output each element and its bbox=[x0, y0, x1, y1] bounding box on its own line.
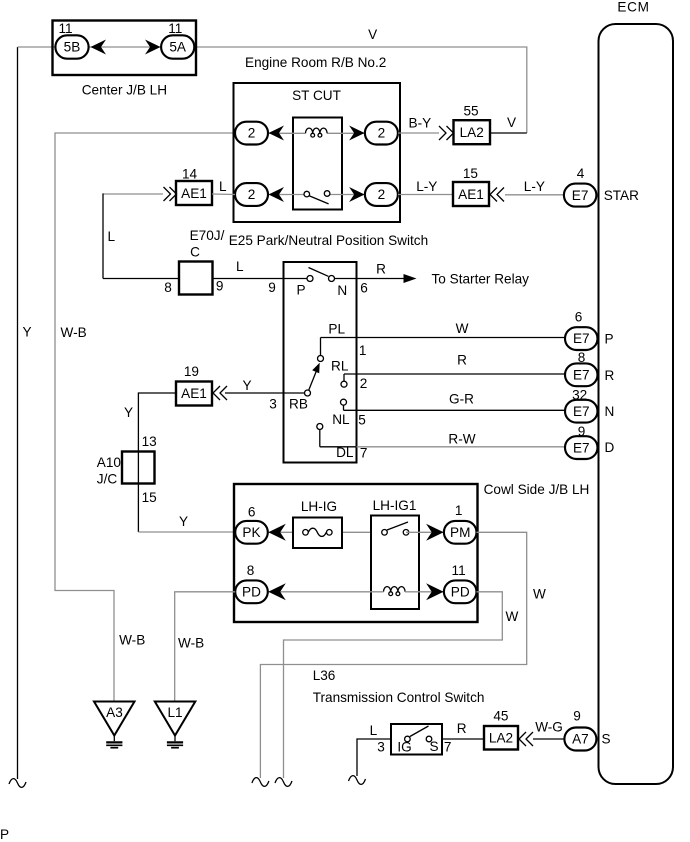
svg-text:5B: 5B bbox=[64, 40, 81, 55]
svg-text:N: N bbox=[337, 283, 347, 298]
wire B-Y from ST CUT to LA2 bbox=[398, 132, 439, 134]
svg-text:9: 9 bbox=[573, 709, 581, 724]
svg-text:R: R bbox=[605, 368, 615, 383]
svg-text:W-B: W-B bbox=[178, 635, 204, 650]
svg-text:RL: RL bbox=[331, 358, 349, 373]
mate arrow into 5B bbox=[91, 40, 107, 55]
ground symbol A3 bbox=[113, 736, 115, 742]
svg-text:LH-IG1: LH-IG1 bbox=[373, 498, 417, 513]
svg-text:A10: A10 bbox=[97, 455, 122, 470]
contact N-row with stem bbox=[341, 399, 347, 405]
svg-text:2: 2 bbox=[248, 126, 256, 141]
svg-text:W-G: W-G bbox=[535, 720, 563, 735]
svg-text:Y: Y bbox=[179, 514, 188, 529]
svg-text:7: 7 bbox=[444, 739, 452, 754]
svg-text:W-B: W-B bbox=[119, 632, 145, 647]
connector LA2 (55) bbox=[454, 120, 491, 144]
wire PD 11 W down and around bbox=[284, 592, 503, 778]
svg-text:NL: NL bbox=[332, 412, 350, 427]
svg-text:Engine Room R/B No.2: Engine Room R/B No.2 bbox=[245, 55, 386, 70]
svg-text:8: 8 bbox=[164, 280, 172, 295]
wire through Center J/B bbox=[88, 46, 161, 48]
wire Y to PK bbox=[138, 531, 235, 533]
contact RL with stem bbox=[343, 374, 345, 381]
svg-text:AE1: AE1 bbox=[181, 186, 207, 201]
svg-text:V: V bbox=[368, 27, 377, 42]
connector 2 top-right bbox=[365, 122, 398, 145]
connector E7 pin D bbox=[565, 436, 598, 459]
connector 5A bbox=[161, 35, 194, 58]
break squiggle trans L wire bbox=[349, 776, 366, 785]
wire PD row inside bbox=[268, 591, 384, 593]
svg-text:6: 6 bbox=[360, 281, 368, 296]
connector E7 pin P bbox=[565, 327, 598, 350]
svg-text:55: 55 bbox=[463, 104, 478, 119]
svg-text:N: N bbox=[605, 404, 615, 419]
svg-text:V: V bbox=[507, 115, 516, 130]
svg-text:L36: L36 bbox=[313, 668, 336, 683]
connector PD (11) bbox=[444, 580, 477, 603]
svg-text:STAR: STAR bbox=[604, 188, 639, 203]
wire PD8 to L1 ground bbox=[175, 592, 236, 701]
svg-text:6: 6 bbox=[575, 310, 583, 325]
junction block Center J/B LH bbox=[53, 21, 197, 76]
connector 2 top-left bbox=[235, 122, 268, 145]
wire L row to E70J/C bbox=[103, 278, 179, 280]
fuse LH-IG box bbox=[293, 518, 342, 549]
svg-text:9: 9 bbox=[216, 279, 224, 294]
connector PK bbox=[235, 521, 268, 544]
svg-text:C: C bbox=[190, 245, 200, 260]
svg-text:P: P bbox=[605, 332, 614, 347]
svg-text:A3: A3 bbox=[106, 705, 123, 720]
svg-text:L: L bbox=[370, 723, 378, 738]
svg-text:2: 2 bbox=[248, 187, 256, 202]
svg-text:P: P bbox=[296, 283, 305, 298]
wire L from E70J/C to switch bbox=[213, 278, 284, 280]
wire W-B vertical from ST CUT to A3 bbox=[55, 133, 235, 701]
svg-text:8: 8 bbox=[578, 350, 586, 365]
contact NL with stem bbox=[317, 424, 323, 430]
junction connector A10 J/C box bbox=[122, 452, 155, 484]
svg-text:L: L bbox=[236, 259, 244, 274]
svg-text:15: 15 bbox=[142, 490, 157, 505]
svg-text:D: D bbox=[605, 440, 615, 455]
svg-text:AE1: AE1 bbox=[458, 187, 484, 202]
svg-text:E7: E7 bbox=[572, 188, 589, 203]
connector A7 bbox=[564, 728, 596, 751]
svg-text:R: R bbox=[457, 721, 467, 736]
mate arrow into PM bbox=[426, 524, 444, 541]
chevrons into AE1 15 bbox=[490, 188, 504, 202]
svg-text:PD: PD bbox=[451, 585, 470, 600]
wire black into LA2 right bbox=[491, 132, 527, 134]
connector 5B bbox=[55, 35, 88, 58]
contact IG bbox=[405, 736, 411, 742]
svg-text:W: W bbox=[456, 321, 469, 336]
wire G-R row bbox=[344, 409, 565, 411]
contact PL with stem bbox=[320, 338, 322, 356]
wire relay to PM bbox=[406, 531, 444, 533]
svg-text:9: 9 bbox=[268, 280, 276, 295]
wire to P contact bbox=[284, 278, 308, 280]
svg-text:R: R bbox=[376, 262, 386, 277]
chevrons into LA2 45 bbox=[519, 732, 533, 746]
svg-text:L1: L1 bbox=[167, 705, 182, 720]
svg-text:Y: Y bbox=[23, 325, 32, 340]
contact P bbox=[307, 276, 313, 282]
mate arrow bottom-right oval bbox=[349, 187, 365, 202]
svg-text:2: 2 bbox=[378, 187, 386, 202]
svg-text:3: 3 bbox=[377, 739, 385, 754]
svg-text:L: L bbox=[108, 229, 116, 244]
svg-text:W-B: W-B bbox=[61, 325, 87, 340]
svg-text:DL: DL bbox=[336, 445, 354, 460]
svg-text:E7: E7 bbox=[573, 404, 590, 419]
svg-text:ST CUT: ST CUT bbox=[292, 88, 341, 103]
rotor arm with arrowhead bbox=[309, 372, 317, 391]
svg-text:1: 1 bbox=[359, 343, 367, 358]
svg-text:6: 6 bbox=[248, 505, 256, 520]
svg-text:15: 15 bbox=[463, 166, 478, 181]
chevrons into AE1 19 bbox=[213, 386, 227, 400]
wire from 5B to left corner bbox=[18, 46, 57, 48]
connector E7 STAR bbox=[564, 184, 597, 207]
mate arrow into PK bbox=[268, 524, 286, 541]
contact RB with wire bbox=[284, 392, 305, 394]
connector PM bbox=[444, 521, 477, 544]
svg-text:E25 Park/Neutral Position Swit: E25 Park/Neutral Position Switch bbox=[229, 233, 428, 248]
wire PK row inside bbox=[268, 531, 293, 533]
wire R to LA2 45 bbox=[442, 738, 484, 740]
svg-text:PM: PM bbox=[450, 525, 470, 540]
svg-text:8: 8 bbox=[247, 563, 255, 578]
connector E7 pin N bbox=[565, 400, 598, 423]
svg-text:ECM: ECM bbox=[617, 0, 649, 15]
wire W-G from A7 bbox=[533, 738, 564, 740]
wire V top run from 5A to corner down bbox=[195, 47, 527, 133]
junction block Cowl Side J/B box bbox=[234, 484, 478, 622]
svg-text:To Starter Relay: To Starter Relay bbox=[432, 272, 530, 287]
ECM body bbox=[599, 24, 674, 784]
wire AE1(14) to ST CUT bbox=[212, 193, 235, 196]
svg-text:G-R: G-R bbox=[449, 391, 474, 406]
svg-text:Y: Y bbox=[124, 405, 133, 420]
svg-text:W: W bbox=[506, 609, 519, 624]
svg-text:P: P bbox=[0, 827, 9, 842]
svg-text:J/C: J/C bbox=[97, 472, 118, 487]
svg-text:PD: PD bbox=[242, 585, 261, 600]
svg-text:Cowl Side J/B LH: Cowl Side J/B LH bbox=[484, 482, 590, 497]
mate arrow into PD 11 bbox=[426, 583, 444, 600]
wire R to starter relay with arrow bbox=[335, 278, 414, 280]
wire L from trans switch to break bbox=[357, 739, 391, 776]
ground L1 triangle bbox=[155, 702, 196, 736]
connector AE1 (14) bbox=[176, 181, 212, 205]
connector AE1 (19) bbox=[176, 382, 212, 406]
svg-text:13: 13 bbox=[142, 434, 157, 449]
relay switch contacts bbox=[382, 530, 388, 536]
svg-text:Y: Y bbox=[242, 378, 251, 393]
ground symbol L1 bbox=[174, 736, 176, 742]
contact S bbox=[426, 736, 432, 742]
wire Y left vertical bbox=[17, 47, 19, 779]
relay coil bbox=[384, 587, 406, 592]
switch blade P-N bbox=[309, 268, 329, 277]
connector E7 pin R bbox=[565, 363, 598, 386]
svg-text:AE1: AE1 bbox=[181, 386, 207, 401]
chevrons into AE1 14 bbox=[164, 187, 177, 201]
svg-text:LA2: LA2 bbox=[460, 125, 484, 140]
wire Y from RB to AE1(19) bbox=[225, 392, 284, 394]
svg-text:2: 2 bbox=[378, 126, 386, 141]
mate arrow top-right oval bbox=[349, 126, 365, 141]
svg-text:9: 9 bbox=[578, 424, 586, 439]
connector AE1 (15) bbox=[453, 182, 489, 206]
relay LH-IG1 box bbox=[371, 516, 419, 610]
svg-text:11: 11 bbox=[452, 563, 466, 578]
svg-text:E7: E7 bbox=[573, 331, 590, 346]
svg-text:L: L bbox=[219, 179, 227, 194]
wire PM W down and around bbox=[260, 532, 526, 778]
svg-text:IG: IG bbox=[397, 740, 411, 755]
relay ST CUT inner box bbox=[293, 118, 342, 210]
svg-text:7: 7 bbox=[360, 446, 368, 461]
relay block ST CUT outer box bbox=[234, 83, 401, 222]
switch L36 box bbox=[391, 724, 442, 755]
svg-text:R-W: R-W bbox=[448, 431, 475, 446]
wire Y from AE1(19) down through A10 bbox=[138, 393, 176, 532]
break squiggle PD wire bbox=[275, 778, 292, 787]
svg-text:LH-IG: LH-IG bbox=[301, 499, 337, 514]
svg-text:RB: RB bbox=[289, 397, 308, 412]
wire R-W row bbox=[320, 446, 357, 448]
coil ST CUT bbox=[306, 128, 328, 133]
break squiggle PM wire bbox=[252, 778, 269, 787]
wire L from AE1(14) corner bbox=[103, 193, 163, 195]
svg-text:Center J/B LH: Center J/B LH bbox=[82, 83, 167, 98]
mate arrow into PD 8 bbox=[268, 583, 286, 600]
wire top row inside ST CUT bbox=[268, 132, 306, 134]
svg-text:45: 45 bbox=[493, 708, 508, 723]
chevrons into LA2 55 bbox=[439, 126, 454, 140]
svg-text:L-Y: L-Y bbox=[416, 179, 437, 194]
svg-text:4: 4 bbox=[577, 166, 585, 181]
svg-text:2: 2 bbox=[360, 376, 368, 391]
relay switch contacts ST CUT bbox=[304, 191, 310, 197]
svg-text:PL: PL bbox=[328, 322, 345, 337]
wire W row bbox=[321, 337, 565, 339]
svg-text:L-Y: L-Y bbox=[524, 179, 545, 194]
svg-text:14: 14 bbox=[182, 167, 198, 182]
mate arrow into 5A bbox=[145, 40, 161, 55]
mate arrow top-left oval bbox=[269, 126, 285, 141]
svg-text:S: S bbox=[602, 732, 611, 747]
svg-text:11: 11 bbox=[168, 21, 182, 36]
svg-text:R: R bbox=[457, 353, 467, 368]
switch blade IG-S bbox=[410, 726, 429, 737]
svg-text:3: 3 bbox=[269, 397, 277, 412]
wire bottom row inside ST CUT bbox=[268, 194, 304, 196]
wire R row bbox=[344, 373, 565, 375]
svg-text:5: 5 bbox=[358, 412, 366, 427]
svg-text:B-Y: B-Y bbox=[409, 116, 432, 131]
connector LA2 (45) bbox=[484, 726, 518, 750]
svg-text:S: S bbox=[429, 739, 438, 754]
svg-text:LA2: LA2 bbox=[489, 730, 513, 745]
fuse element bbox=[308, 528, 326, 536]
svg-text:W: W bbox=[533, 586, 546, 601]
wire L-Y from E7 STAR bbox=[505, 194, 565, 196]
svg-text:E7: E7 bbox=[573, 440, 590, 455]
connector PD (8) bbox=[235, 580, 268, 603]
svg-text:11: 11 bbox=[58, 21, 72, 36]
switch E25 Park/Neutral Position Switch box bbox=[284, 262, 357, 463]
svg-text:PK: PK bbox=[242, 525, 260, 540]
svg-text:1: 1 bbox=[455, 503, 463, 518]
mate arrow bottom-left oval bbox=[269, 187, 285, 202]
svg-text:E7: E7 bbox=[573, 368, 590, 383]
svg-text:E70J/: E70J/ bbox=[190, 228, 225, 243]
svg-text:32: 32 bbox=[572, 388, 587, 403]
junction connector E70J/C box bbox=[179, 262, 213, 295]
contact N bbox=[329, 276, 335, 282]
ground A3 triangle bbox=[94, 702, 135, 736]
connector 2 bottom-left bbox=[235, 183, 268, 206]
wire L-Y row from ST CUT to AE1(15) bbox=[398, 194, 453, 196]
svg-text:A7: A7 bbox=[572, 732, 589, 747]
connector 2 bottom-right bbox=[365, 183, 398, 206]
break squiggle left bbox=[9, 779, 26, 788]
svg-text:19: 19 bbox=[184, 364, 199, 379]
svg-text:Transmission Control Switch: Transmission Control Switch bbox=[313, 690, 485, 705]
svg-text:5A: 5A bbox=[169, 40, 187, 55]
